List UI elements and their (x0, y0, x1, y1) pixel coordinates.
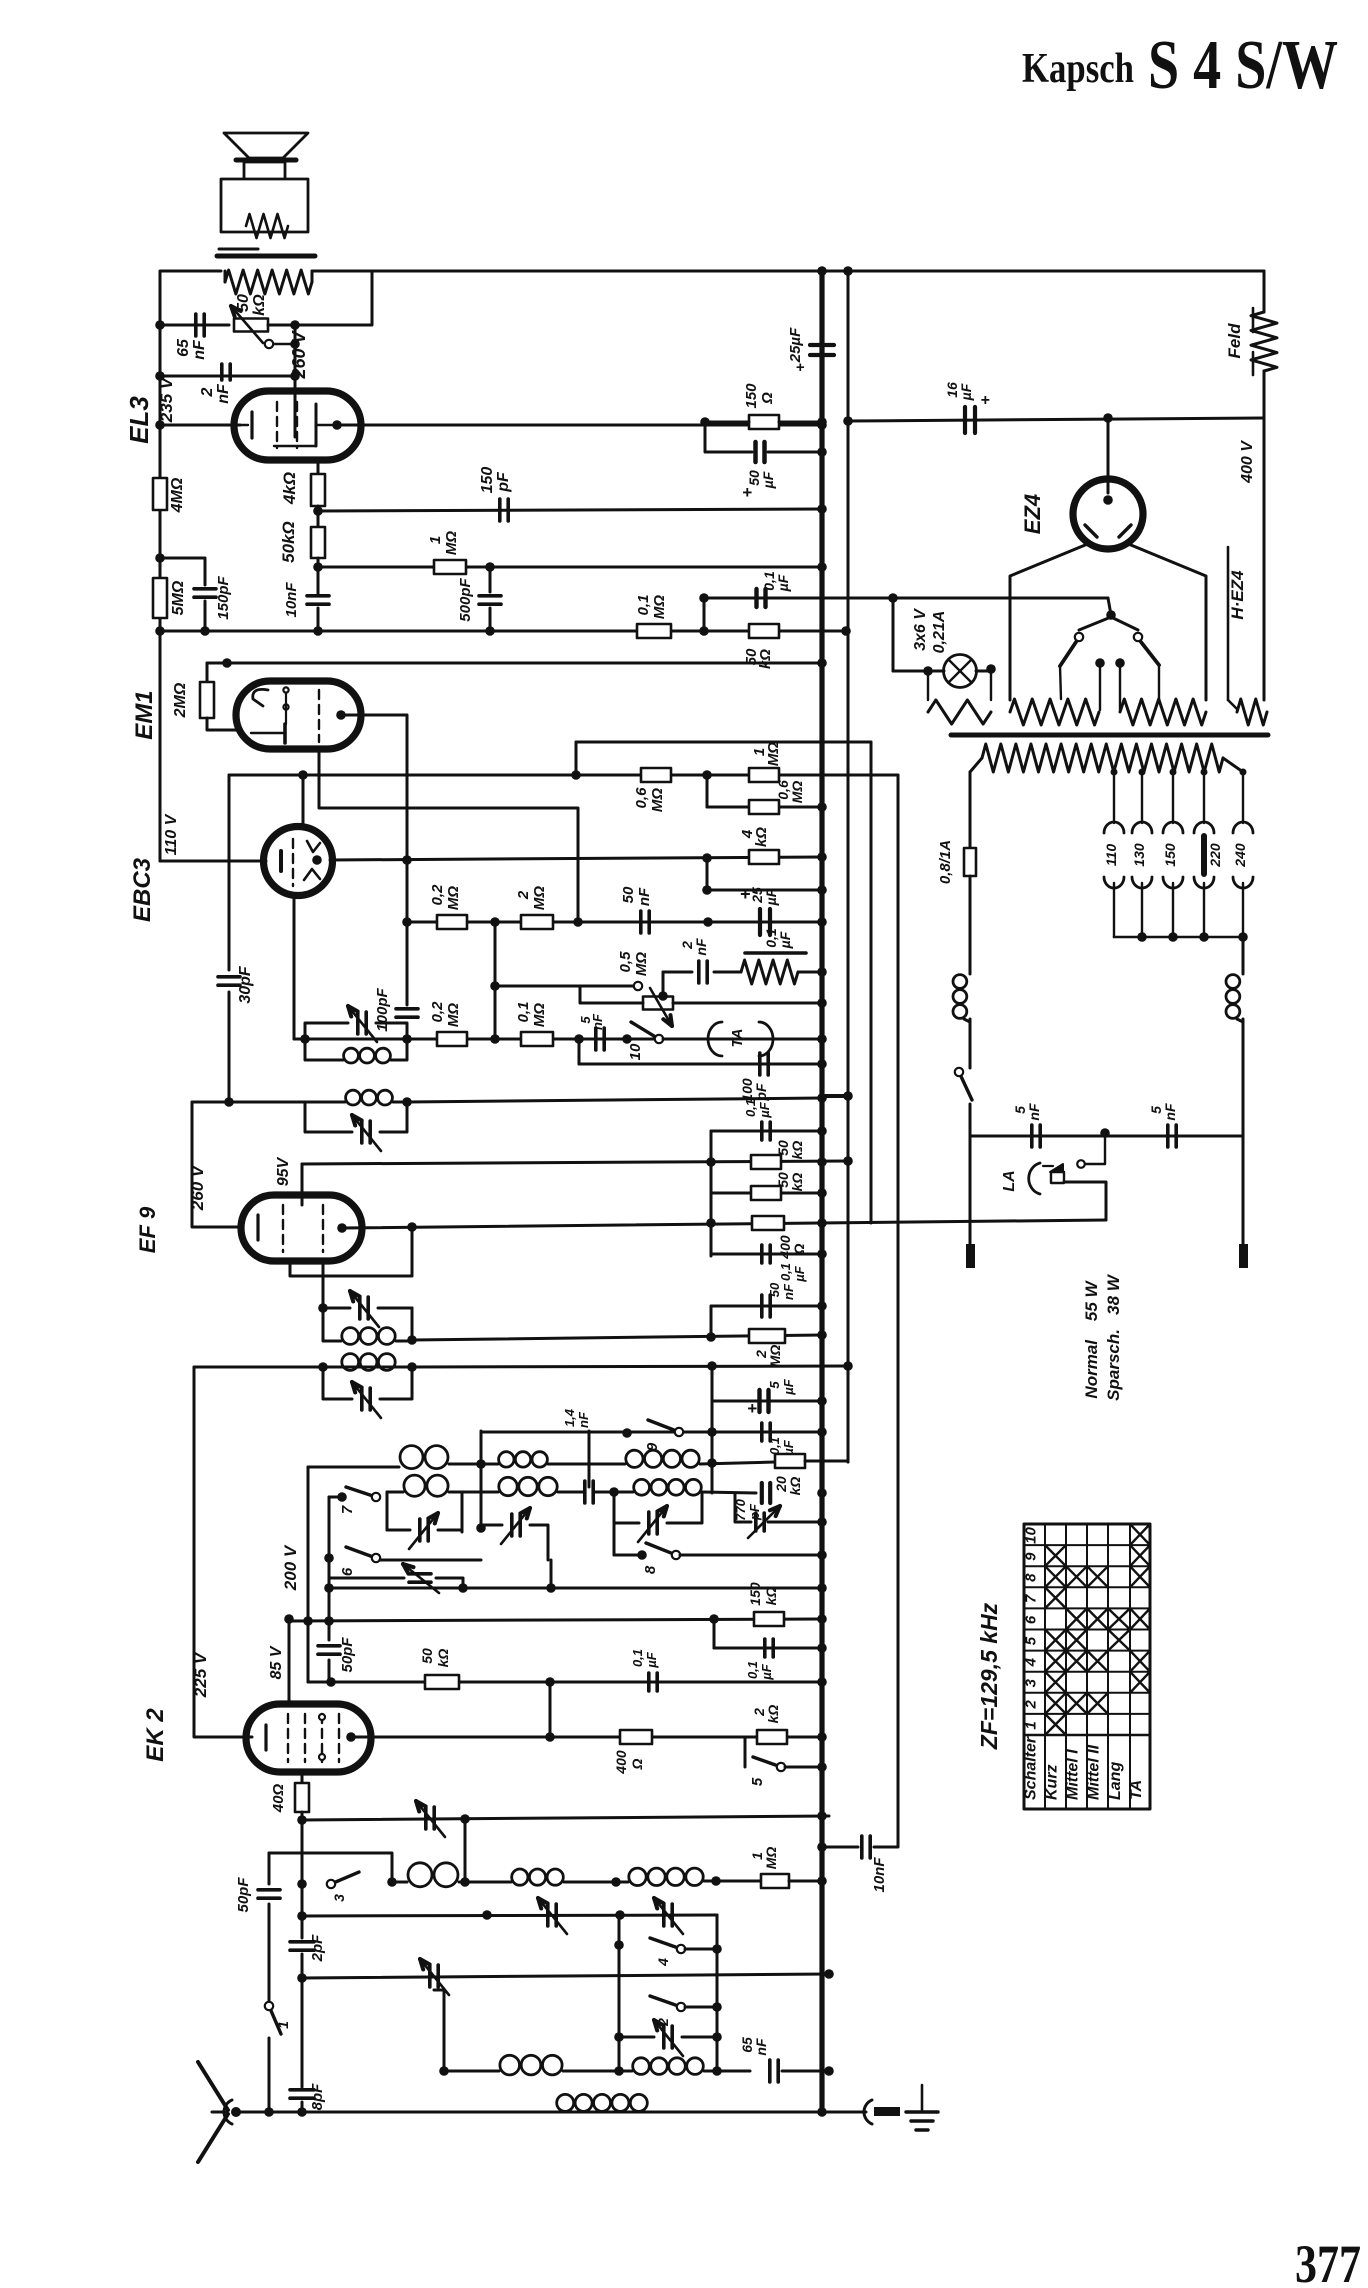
table switch numbers (1023, 1527, 1040, 1730)
switch 4 (614, 1915, 722, 1967)
label 2pF (309, 1934, 326, 1963)
cap 50uF (705, 422, 827, 502)
EBC3 anode dot (312, 855, 322, 865)
vert 707 775-807 (706, 775, 709, 807)
svg-text:µF: µF (792, 1265, 807, 1282)
TA jack (663, 1022, 822, 1056)
svg-text:2: 2 (1023, 1700, 1040, 1710)
svg-text:nF: nF (576, 1411, 591, 1428)
osc varcap C (614, 1492, 702, 1542)
table X marks (1045, 1524, 1150, 1735)
line y663 EM1 top (207, 658, 827, 668)
svg-text:3: 3 (331, 1894, 347, 1902)
svg-text:S 4 S/W: S 4 S/W (1148, 27, 1338, 104)
EBC3 chevron bottom (304, 869, 320, 880)
cap 1.4nF drop (562, 1408, 591, 1487)
heater winding right (1120, 699, 1206, 725)
zigzag resistor det (714, 960, 827, 984)
line y631 ground rail (160, 630, 846, 633)
node busA 1816 (817, 1811, 827, 1821)
cap 10nF bus (817, 1836, 898, 1893)
label 260V EF9 (188, 1164, 207, 1211)
node 578-922 (573, 917, 583, 927)
EZ4 cathode dot (1103, 495, 1113, 505)
95V lead (301, 1164, 304, 1205)
node 490-567 (485, 562, 495, 572)
row 5uF y1399 (712, 1366, 827, 1418)
tap bus bar (1114, 932, 1248, 942)
svg-text:8: 8 (642, 1565, 659, 1574)
label 225V (191, 1651, 210, 1698)
EBC3 chevron top (307, 841, 320, 852)
svg-text:Lang: Lang (1107, 1762, 1124, 1800)
svg-text:kΩ: kΩ (757, 649, 774, 669)
svg-text:nF: nF (636, 887, 653, 906)
node 567 busA (817, 562, 827, 572)
node 707-856 (702, 853, 712, 863)
node 418 busA (817, 417, 827, 427)
cap 50nF-922 (620, 886, 653, 933)
switch 6 (324, 1497, 481, 1576)
label 8pF (309, 2083, 326, 2111)
pot left lead (580, 986, 643, 1003)
svg-text:0,1: 0,1 (635, 595, 652, 616)
svg-text:MΩ: MΩ (445, 1003, 462, 1027)
volume pot 50k body (234, 319, 268, 332)
EM1 target bar (251, 724, 285, 743)
resistor 0.1M y631 (635, 595, 671, 638)
svg-text:4kΩ: 4kΩ (280, 472, 299, 505)
label 85V (268, 1645, 285, 1679)
switch 5 (745, 1737, 827, 1786)
node 576-775 (571, 770, 581, 780)
label EF9 (135, 1206, 160, 1253)
EK2 osc vertical x302 (290, 1812, 314, 2112)
resistor zigzag 0.1uF bar (745, 951, 806, 955)
CT inner taps (1095, 658, 1125, 710)
node 1100-1136 (1100, 1128, 1110, 1138)
osc row1 y1462 (308, 1446, 775, 1469)
osc line y1820 (302, 1816, 829, 1820)
svg-text:µF: µF (777, 931, 793, 949)
label EM1 (131, 690, 158, 739)
node 707-422 (700, 417, 710, 427)
svg-text:kΩ: kΩ (753, 827, 770, 847)
svg-text:6: 6 (1023, 1615, 1040, 1624)
svg-text:3: 3 (1023, 1678, 1040, 1687)
switch 1 (264, 1975, 281, 2117)
IF2 sec varcap (348, 1006, 377, 1042)
node 631-490 (485, 626, 495, 636)
svg-text:0,6: 0,6 (633, 787, 650, 809)
speaker cone mouth (236, 158, 296, 163)
svg-text:110 V: 110 V (163, 813, 180, 855)
ant varcap 1 (538, 1898, 567, 1934)
svg-text:Schalter: Schalter (1023, 1736, 1040, 1800)
svg-text:770: 770 (733, 1498, 748, 1520)
svg-text:260 V: 260 V (289, 329, 309, 379)
IF2 sec top line (294, 1038, 407, 1041)
svg-text:kΩ: kΩ (789, 1141, 805, 1160)
heater line y598 (704, 597, 1108, 600)
main bus B x848 (847, 271, 850, 1462)
node 1108-418 (1103, 413, 1113, 423)
lamp feed (888, 593, 898, 671)
cap 50pF ant (235, 1853, 280, 1975)
page number 377 (1295, 2234, 1361, 2288)
CT blade right (1141, 642, 1159, 699)
osc varcap B (481, 1508, 548, 1560)
node 323-1367 (318, 1362, 328, 1372)
IF2 pri coil (305, 1090, 407, 1105)
svg-text:kΩ: kΩ (789, 1173, 805, 1192)
EM1 inner rings (283, 687, 288, 724)
IF2 pri varcap leads (305, 1102, 407, 1132)
transformer core bar (951, 733, 1268, 738)
resistor 2M-922 (515, 886, 553, 929)
antenna symbol (198, 2062, 228, 2162)
svg-text:2: 2 (515, 890, 532, 900)
line y807 (707, 802, 827, 812)
resistor 150ohm (707, 383, 822, 429)
node 922 busA (817, 917, 827, 927)
line y922 (402, 917, 822, 927)
cap 0.1uF y598 (757, 571, 792, 607)
svg-text:400: 400 (613, 1750, 629, 1775)
node 465-1820 (460, 1814, 470, 1882)
ant varcap 3 (420, 1959, 449, 1995)
EK2 anode line y1737 (351, 1682, 822, 1742)
svg-text:Mittel I: Mittel I (1065, 1749, 1082, 1800)
cap 5nF left (1012, 1103, 1042, 1147)
node left rail 376 (155, 371, 165, 381)
ring 856 busA (817, 852, 827, 862)
label EL3 (124, 396, 154, 444)
switch 10 (627, 1022, 663, 1060)
svg-text:8: 8 (1023, 1573, 1040, 1582)
svg-text:0,2: 0,2 (429, 1001, 446, 1023)
svg-text:65: 65 (175, 338, 192, 357)
antenna terminal (224, 2100, 241, 2124)
lamp 3x6V (893, 655, 991, 688)
svg-text:EM1: EM1 (131, 690, 158, 739)
LA jack (1001, 1132, 1106, 1220)
tap 150 (1162, 769, 1183, 938)
vert x576 (575, 742, 578, 775)
tube EK2 envelope (246, 1704, 371, 1772)
svg-text:MΩ: MΩ (445, 886, 462, 910)
label ZF frequency (976, 1602, 1002, 1750)
switch 9 (622, 1420, 683, 1451)
svg-text:EBC3: EBC3 (129, 857, 156, 922)
IF2 pri line y1102 (192, 1097, 305, 1107)
resistor 4k (280, 460, 325, 506)
EK2 grid rings (319, 1714, 325, 1760)
svg-text:MΩ: MΩ (633, 952, 650, 976)
node 1224 busA (817, 1218, 827, 1228)
svg-text:5MΩ: 5MΩ (170, 580, 187, 615)
svg-text:4MΩ: 4MΩ (169, 477, 186, 513)
svg-text:150: 150 (747, 1582, 763, 1606)
svg-text:EF 9: EF 9 (135, 1206, 160, 1253)
switch 8 (614, 1523, 827, 1574)
mains switch (955, 1068, 972, 1136)
heater EZ4 winding (1237, 699, 1267, 725)
label 400V (1239, 440, 1256, 484)
EZ4 anode lead right (1126, 543, 1206, 700)
EM1 anode lead (341, 715, 407, 1005)
node busA bottom (817, 2107, 827, 2117)
node 418 busB (843, 416, 853, 426)
osc box verticals (387, 1464, 486, 1533)
EL3 anode plate (315, 404, 318, 446)
osc varcap A (387, 1513, 462, 1549)
volume pot arrow (231, 306, 263, 343)
svg-text:110: 110 (1103, 844, 1119, 867)
resistor 0.1M-1039 (515, 1002, 553, 1046)
label 260V (289, 329, 309, 379)
resistor 0.2M-1039 (429, 1001, 467, 1046)
EL3 cathode (240, 412, 252, 438)
svg-text:µF: µF (759, 1663, 774, 1680)
svg-text:+: + (747, 1399, 757, 1418)
title Kapsch (1022, 46, 1134, 92)
svg-text:8pF: 8pF (309, 2083, 326, 2111)
svg-text:Ω: Ω (759, 392, 776, 405)
node 627-1039 (622, 1034, 632, 1044)
svg-text:150: 150 (479, 467, 496, 494)
tap 220 (1194, 769, 1223, 938)
capacitor 65nF (160, 314, 229, 360)
row 0.1uF y1648 (714, 1619, 827, 1681)
line y1337 AVC (412, 1330, 827, 1340)
svg-text:0,1: 0,1 (515, 1002, 532, 1023)
osc varcap y1814 (416, 1801, 445, 1837)
ground symbol (906, 2085, 938, 2130)
line y567 (318, 566, 822, 569)
svg-text:95V: 95V (275, 1156, 292, 1186)
node 631 busB (841, 626, 851, 636)
svg-text:pF: pF (495, 471, 512, 493)
svg-text:MΩ: MΩ (767, 1345, 783, 1368)
main bus A x822 (819, 271, 824, 2112)
svg-text:nF: nF (215, 383, 232, 404)
EK2 anode dot (346, 1732, 356, 1742)
svg-text:EL3: EL3 (124, 396, 154, 444)
svg-text:10nF: 10nF (283, 582, 300, 618)
varcap 770 trimmer (735, 1493, 827, 1538)
heater winding left (1010, 699, 1099, 725)
label lamp (912, 608, 948, 654)
node left rail 325 (155, 320, 165, 330)
left rail wire (160, 271, 221, 631)
svg-text:130: 130 (1131, 843, 1147, 867)
primary winding (970, 744, 1243, 772)
EK2 cathode (264, 1725, 267, 1750)
cap 25uF bus (787, 327, 834, 376)
node 303-775 (298, 770, 308, 780)
svg-text:ZF=129,5 kHz: ZF=129,5 kHz (976, 1602, 1002, 1750)
svg-text:3x6 V: 3x6 V (912, 608, 929, 651)
bus B top node (843, 266, 853, 276)
svg-text:µF: µF (775, 574, 791, 592)
svg-text:µF: µF (958, 383, 974, 401)
svg-text:MΩ: MΩ (443, 531, 460, 555)
85V lead (284, 1614, 294, 1704)
svg-text:9: 9 (1023, 1552, 1040, 1561)
svg-text:Kurz: Kurz (1044, 1764, 1061, 1800)
EF9 grid lead (318, 1261, 328, 1313)
EL3 anode node (332, 420, 342, 430)
speaker field-coil box (221, 179, 308, 232)
svg-text:0,2: 0,2 (429, 884, 446, 906)
cap 5nF det (578, 1013, 605, 1050)
svg-text:Kapsch: Kapsch (1022, 46, 1134, 92)
svg-text:400 V: 400 V (1239, 440, 1256, 484)
line y1588 (329, 1560, 827, 1593)
mains pin right (1239, 1136, 1248, 1268)
bottom wire y2112 (236, 2111, 866, 2114)
svg-text:kΩ: kΩ (765, 1705, 781, 1724)
node 302-1916 (297, 1911, 307, 1921)
CT branch right (1111, 617, 1142, 641)
V225 rail (194, 1367, 246, 1737)
EF9 screen dash (322, 1205, 324, 1252)
node 712-1463 (707, 1431, 717, 1468)
svg-text:1: 1 (275, 2021, 291, 2029)
svg-text:nF: nF (781, 1283, 796, 1300)
svg-text:0,21A: 0,21A (931, 611, 948, 654)
ant row y1916 (302, 1915, 717, 1916)
svg-text:150: 150 (743, 383, 760, 409)
svg-text:5: 5 (1023, 1636, 1040, 1645)
svg-text:nF: nF (1162, 1103, 1178, 1121)
svg-text:µF: µF (781, 1378, 796, 1395)
mains choke left (953, 876, 970, 1068)
row 50k y1163 (706, 1140, 805, 1169)
line y1682 (308, 1677, 822, 1687)
resistor 400 EK2 (613, 1730, 652, 1775)
IF1 pri coil (342, 1354, 395, 1371)
node 1039 busA (817, 1034, 827, 1044)
svg-text:kΩ: kΩ (763, 1587, 779, 1606)
node 620-1915 (615, 1910, 625, 1920)
cap 5nF right (1148, 1103, 1178, 1147)
svg-text:40Ω: 40Ω (270, 1784, 287, 1814)
svg-text:MΩ: MΩ (649, 788, 666, 812)
output transformer secondary winding (225, 270, 312, 294)
resistor 1M-775 (749, 742, 782, 782)
node 301-1822 (297, 1815, 307, 1825)
svg-text:EZ4: EZ4 (1020, 494, 1045, 534)
IF1 pri line y1367 (194, 1366, 412, 1369)
hook 50pF (269, 1853, 392, 1882)
svg-text:0,1: 0,1 (745, 1661, 760, 1679)
svg-text:TA: TA (729, 1029, 746, 1048)
node 302-1978 (297, 1973, 307, 1983)
cap 2nF det (663, 938, 709, 983)
svg-text:2MΩ: 2MΩ (172, 682, 189, 718)
EM1 grid dash (318, 690, 320, 742)
line y1367 right (412, 1361, 853, 1371)
svg-text:7: 7 (1023, 1594, 1040, 1603)
label 0.1uF zigzag (763, 928, 793, 949)
svg-text:nF: nF (753, 2038, 769, 2056)
label Normal 55W (1082, 1279, 1101, 1398)
svg-text:Normal 55 W: Normal 55 W (1082, 1279, 1101, 1398)
EL3 grid dashes (277, 402, 297, 448)
resistor 2k EK2 (751, 1705, 827, 1744)
node 704-598 (699, 593, 709, 636)
svg-text:TA: TA (1128, 1780, 1145, 1800)
node 579-1039 (574, 1034, 584, 1044)
speaker cone (224, 133, 308, 158)
svg-text:10: 10 (627, 1043, 644, 1060)
label EBC3 (129, 857, 156, 922)
svg-text:7: 7 (339, 1505, 356, 1514)
pot right lead to top bus (268, 271, 372, 325)
cap 100pF EM1 (374, 987, 418, 1031)
svg-text:1: 1 (427, 536, 444, 544)
label 65nF (739, 2037, 769, 2056)
tube EF9 envelope (241, 1195, 362, 1261)
osc row2 y1492 (387, 1475, 756, 1503)
vert x898 (897, 775, 900, 1838)
CT blade left (1060, 642, 1076, 699)
label 235V (157, 376, 176, 423)
EK2 grid lead (198, 1736, 252, 1739)
pot right lead (673, 998, 827, 1008)
svg-text:1: 1 (1023, 1721, 1040, 1729)
node 407-1102 (402, 1097, 412, 1107)
tap 110 (1103, 769, 1124, 938)
speaker hum-bucking coil zigzag (246, 214, 288, 238)
band switch table grid (1024, 1524, 1150, 1809)
cap 0.1uF EK2 (630, 1649, 827, 1691)
svg-text:150: 150 (1162, 843, 1178, 867)
EF9 anode line y1225 (342, 1220, 1106, 1228)
ant varcap 2 (654, 1898, 683, 1934)
node 305-1039 (300, 1034, 310, 1044)
label EK2 (142, 1708, 169, 1762)
node 487-1915 (482, 1910, 492, 1920)
tap 130 (1131, 769, 1152, 938)
node 318-511 (313, 506, 323, 527)
ant row y1978 (302, 1969, 834, 1979)
svg-text:+: + (980, 392, 989, 409)
EF9 anode dot (337, 1223, 347, 1233)
svg-text:kΩ: kΩ (787, 1477, 803, 1496)
EBC3 bottom lead (293, 895, 296, 1039)
vert x711 ladder (710, 1131, 713, 1256)
cap 0.1uF y1431 (762, 1423, 827, 1457)
resistor 0.2M-922 (429, 884, 467, 929)
H-EZ4 lead (1228, 547, 1237, 709)
svg-text:50: 50 (767, 1282, 782, 1297)
svg-text:nF: nF (191, 339, 208, 360)
resistor 400ohm-1224 (752, 1216, 807, 1260)
cap 150pF-5M (160, 558, 232, 636)
mains pin left (966, 1136, 975, 1268)
svg-text:nF: nF (1026, 1103, 1042, 1121)
svg-text:5: 5 (749, 1777, 766, 1786)
AVC line y986 (490, 981, 642, 991)
node 614-1492 (609, 1487, 619, 1497)
node 708-922 (703, 917, 713, 927)
bus A top node (817, 266, 827, 276)
svg-text:µF: µF (763, 888, 779, 906)
EZ4 plate right (1119, 525, 1131, 537)
